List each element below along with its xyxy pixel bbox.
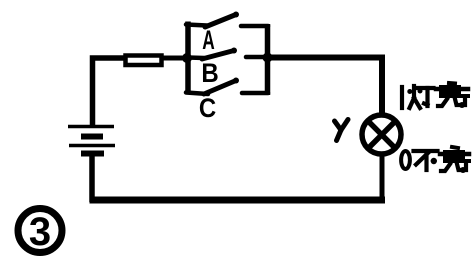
wire left-top (corner from battery top up and right to resistor) (93, 58, 125, 126)
node left junction (182, 53, 192, 63)
wire lamp bottom to bottom-right corner (380, 155, 385, 200)
digit 0 (401, 151, 410, 169)
wire resistor to left node (163, 56, 187, 61)
svg-text:A: A (202, 24, 214, 55)
svg-text:3: 3 (29, 210, 51, 254)
label 1灯亮 (lamp lit) (402, 83, 468, 108)
svg-text:B: B (201, 59, 218, 89)
svg-text:C: C (199, 94, 216, 124)
亮 (443, 150, 465, 163)
灯 fire radical (412, 86, 416, 98)
wire left bus bar (185, 22, 191, 94)
node right junction (263, 53, 273, 63)
wire left-bottom vertical (89, 154, 95, 202)
wire right node to top-right corner and down to lamp (268, 58, 383, 114)
resistor (box) (126, 56, 162, 66)
switch A (186, 12, 268, 28)
switch C (186, 78, 268, 95)
label 0不亮 (lamp not lit) (401, 147, 469, 173)
switch B (188, 48, 268, 60)
wire bottom (90, 197, 386, 204)
figure number 3 (circled) (18, 209, 62, 255)
label Y (335, 120, 349, 141)
battery (two cells) (68, 127, 115, 154)
不 (414, 149, 438, 153)
亮 (439, 85, 461, 98)
灯 ding part (418, 86, 434, 90)
lamp Y (circle with X) (362, 115, 401, 154)
digit 1 (400, 87, 404, 108)
wire right bus bar (265, 24, 271, 95)
